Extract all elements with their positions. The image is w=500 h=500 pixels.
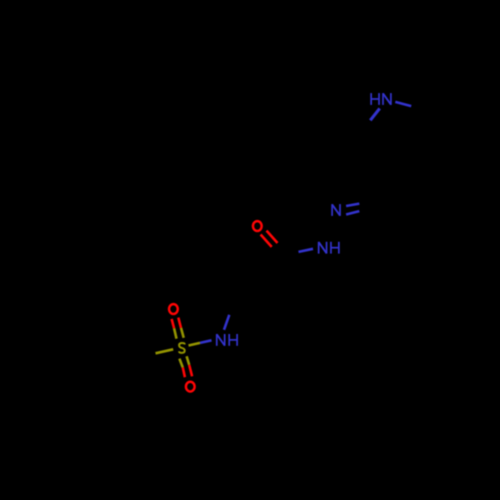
bond S-N4 (S half)	[189, 343, 201, 346]
bond N2=C lower line (N half)	[346, 211, 359, 214]
bond S=O2 left line (O half)	[172, 319, 175, 328]
bond S=O3 left line (S half)	[179, 359, 182, 368]
atom N4 sulfonamide label "NH"	[217, 334, 237, 346]
atom S1 sulfonyl label "S"	[179, 343, 185, 353]
bond S=O3 right line (O half)	[189, 365, 192, 376]
bond S=O3 left line (O half)	[183, 368, 185, 378]
atom N2 imine label "N"	[332, 204, 340, 216]
bond S=O3 right line (S half)	[187, 356, 190, 365]
atom N1 indole NH label "HN"	[371, 93, 391, 105]
bond S=O2 right line (S half)	[181, 328, 184, 338]
atom N3 amide label "NH"	[319, 242, 339, 254]
atom O3 sulfonyl bottom label "O"	[186, 382, 195, 392]
bond C=O1 left line (O half)	[261, 235, 272, 247]
bond N1-C2 (N half)	[370, 108, 379, 120]
bond S=O2 left line (S half)	[174, 328, 176, 338]
bond N4-CH2 (N half)	[224, 315, 229, 330]
bond S-C phenyl (S half)	[156, 349, 174, 353]
bond N1-C7a (N half)	[395, 102, 411, 106]
atom O1 carbonyl label "O"	[253, 221, 262, 231]
bond C(=O)-N3 (N half)	[299, 249, 314, 252]
bond S=O2 right line (O half)	[178, 318, 181, 328]
atom O2 sulfonyl top label "O"	[169, 304, 178, 314]
bond N2=C upper line (N half)	[346, 204, 359, 206]
bond C=O1 right line (O half)	[267, 231, 278, 243]
bond S-N4 (N half)	[200, 340, 212, 343]
